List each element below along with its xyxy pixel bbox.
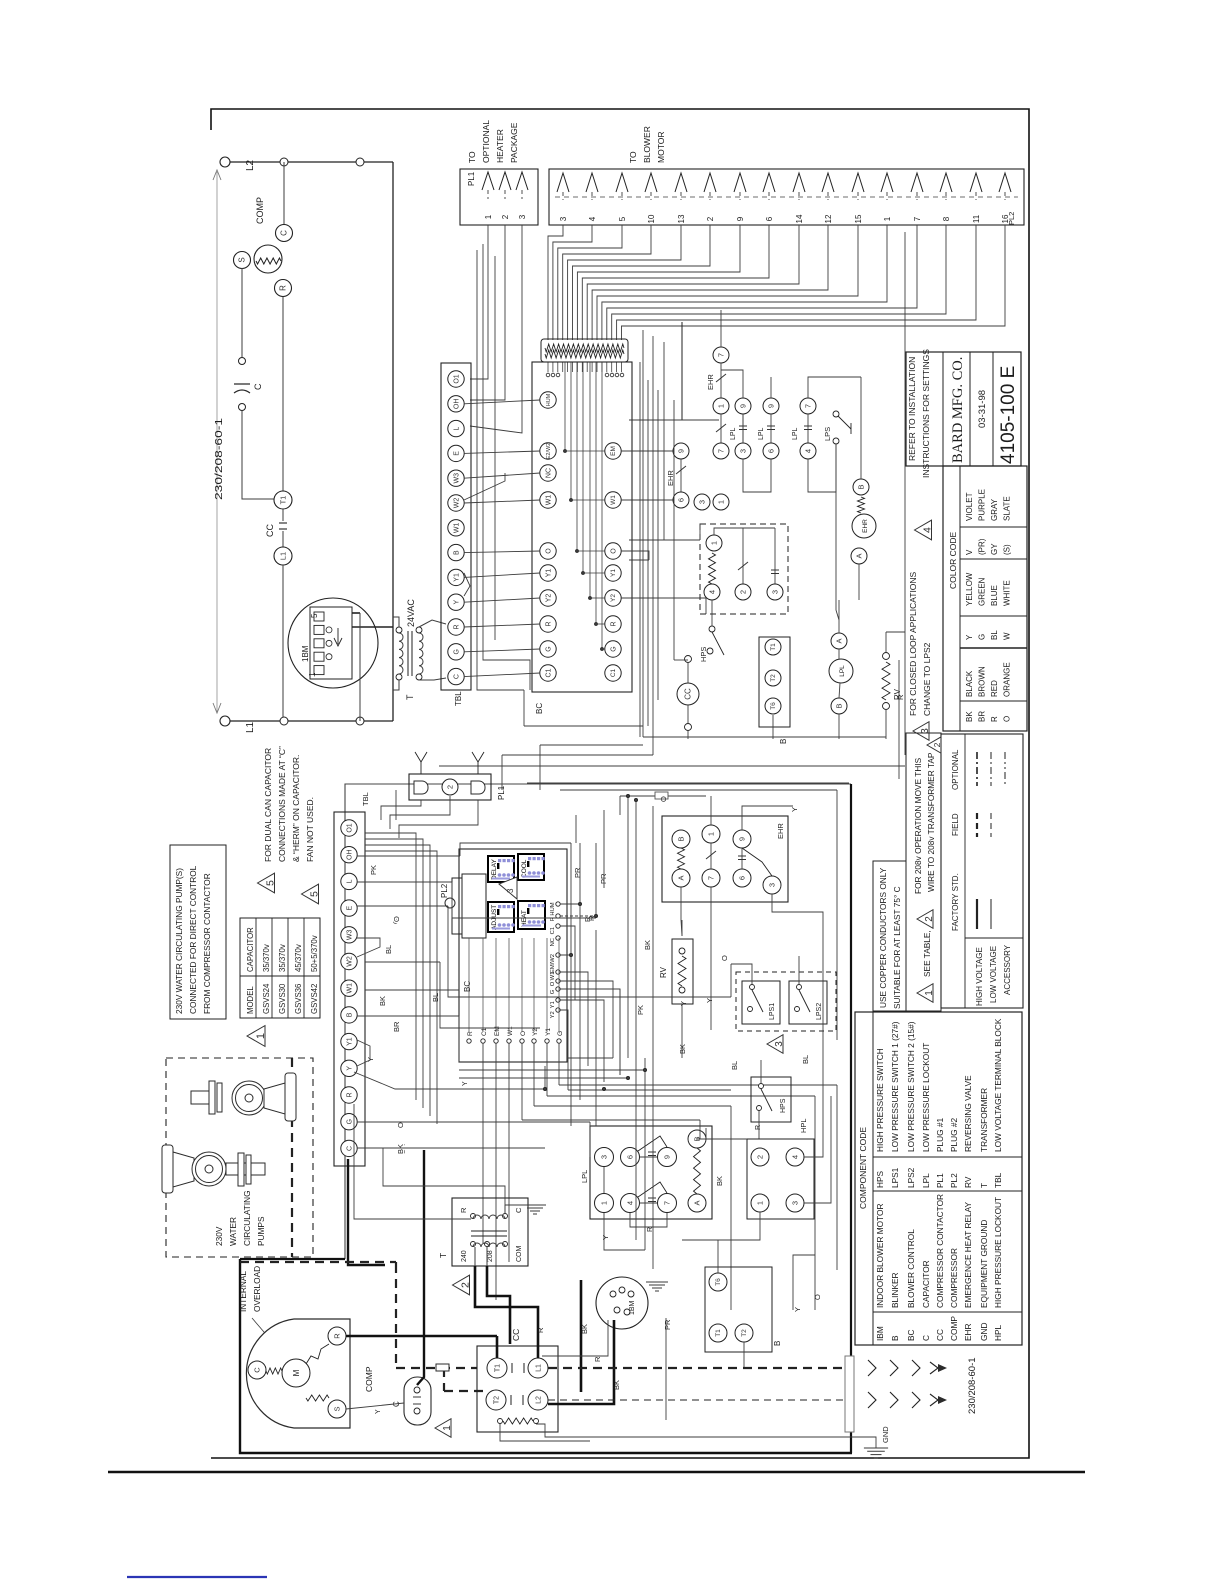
svg-text:14: 14 xyxy=(795,214,804,223)
TBL terminal W3 xyxy=(448,470,464,486)
wire PL1-1 to TBL O1 xyxy=(470,225,488,379)
leader line xyxy=(252,1318,288,1360)
winding M-S xyxy=(306,1395,329,1401)
LPL 6 xyxy=(621,1148,640,1167)
wire down 2 xyxy=(652,336,654,700)
svg-text:PR: PR xyxy=(573,867,582,878)
svg-text:2: 2 xyxy=(932,742,942,747)
svg-text:Y2: Y2 xyxy=(545,594,552,603)
wire vert c xyxy=(657,390,659,700)
wire vert g xyxy=(652,806,654,1269)
HPS contact xyxy=(738,562,748,570)
svg-text:LPS: LPS xyxy=(823,427,832,441)
contact 1 xyxy=(713,398,729,414)
svg-text:LPL: LPL xyxy=(758,427,765,440)
svg-text:15: 15 xyxy=(854,214,863,223)
svg-text:HPS: HPS xyxy=(875,1170,885,1188)
wire BC2 bottom down xyxy=(533,1043,535,1106)
svg-text:O: O xyxy=(550,981,556,986)
wire L1 bottom bus xyxy=(230,720,393,722)
TB T6 lower xyxy=(709,1273,727,1291)
blower pin 11 arrow xyxy=(970,173,982,192)
svg-text:COLOR CODE: COLOR CODE xyxy=(948,532,958,589)
HPS circle 1 xyxy=(706,535,722,551)
svg-text:TO: TO xyxy=(628,151,638,163)
wire to lower unit 1 xyxy=(502,754,653,756)
svg-text:PLUG #1: PLUG #1 xyxy=(935,1117,945,1152)
warning triangle 2a xyxy=(453,1275,470,1295)
sample accessory xyxy=(1004,752,1006,786)
svg-text:HPL: HPL xyxy=(993,1324,1003,1341)
svg-text:R: R xyxy=(610,621,617,626)
BC2 terminal O xyxy=(556,979,560,983)
wire C1 xyxy=(560,926,575,1000)
HPS circle 4 xyxy=(704,584,720,600)
svg-text:5: 5 xyxy=(309,891,321,897)
winding M-R xyxy=(306,1344,329,1364)
TBL2 terminal OH xyxy=(341,847,357,863)
plug PL1 connector box xyxy=(460,169,538,225)
svg-text:L1: L1 xyxy=(245,721,256,733)
svg-text:BL: BL xyxy=(431,993,440,1002)
svg-text:2: 2 xyxy=(460,1282,472,1288)
svg-text:R: R xyxy=(896,694,905,700)
wire inside BC2 xyxy=(495,938,497,1032)
CC L2 xyxy=(528,1390,548,1410)
svg-text:EHR: EHR xyxy=(776,823,785,839)
BC terminal G xyxy=(540,641,556,657)
svg-text:PACKAGE: PACKAGE xyxy=(509,122,519,163)
svg-text:L1: L1 xyxy=(278,552,287,560)
heavy dashed field line in pump box xyxy=(291,1058,293,1257)
svg-text:WIRE TO 208v TRANSFORMER TAP: WIRE TO 208v TRANSFORMER TAP xyxy=(926,752,936,892)
blower pin 1 arrow xyxy=(881,173,893,192)
contact 9 xyxy=(735,398,751,414)
svg-text:2: 2 xyxy=(738,590,747,594)
legend box xyxy=(941,734,1023,1008)
LPL box lower xyxy=(590,1126,712,1219)
svg-text:GSVS30: GSVS30 xyxy=(278,983,287,1014)
wire blower lead 2 xyxy=(573,225,711,340)
element terminal dot r xyxy=(610,373,614,377)
svg-text:45/370v: 45/370v xyxy=(294,944,303,972)
indoor blower motor 1BM xyxy=(288,598,378,688)
svg-text:Y: Y xyxy=(965,634,974,640)
bottom unit wire corner xyxy=(365,845,430,1116)
svg-text:YELLOW: YELLOW xyxy=(965,572,974,606)
LPL 3 xyxy=(595,1148,614,1167)
wire down 4 xyxy=(681,322,683,420)
TBL2 terminal R xyxy=(341,1087,357,1103)
wire PL1b xyxy=(390,796,450,829)
svg-text:4105-100 E: 4105-100 E xyxy=(998,366,1019,464)
svg-text:V: V xyxy=(965,549,974,555)
wire horiz a xyxy=(629,419,719,421)
svg-text:7: 7 xyxy=(716,353,725,357)
wire W1 xyxy=(560,972,588,1066)
svg-text:USE COPPER CONDUCTORS ONLY: USE COPPER CONDUCTORS ONLY xyxy=(878,867,888,1008)
svg-text:230V: 230V xyxy=(214,1226,224,1246)
BC right terminal Y2 xyxy=(605,590,621,606)
blower connector box xyxy=(549,169,1024,225)
contactor CC box xyxy=(477,1346,558,1432)
TBL2 terminal O1 xyxy=(341,820,357,836)
svg-text:NC: NC xyxy=(545,468,552,478)
warning triangle 3 xyxy=(913,722,929,741)
warning triangle 5a xyxy=(258,873,275,893)
wire 1BM R to L1 xyxy=(542,1320,608,1356)
wire mid vertical bus xyxy=(359,613,361,721)
svg-text:LPS1: LPS1 xyxy=(890,1167,900,1188)
capacitor terminal dot 2 xyxy=(239,404,246,411)
svg-text:6: 6 xyxy=(765,216,774,221)
svg-text:PL2: PL2 xyxy=(949,1173,959,1188)
CC wire dot xyxy=(685,656,692,663)
unit outline heavy L xyxy=(240,1259,852,1453)
BC2 bottom terminal C1 xyxy=(481,1039,485,1043)
junction dot xyxy=(594,914,597,917)
capacitor plate 1 xyxy=(234,383,250,385)
svg-text:T1: T1 xyxy=(278,496,287,505)
BC2 bottom terminal G xyxy=(557,1039,561,1043)
svg-text:MODEL: MODEL xyxy=(246,986,255,1014)
heater element zigzag row 1 xyxy=(545,344,624,352)
HPS circle 3 xyxy=(767,584,783,600)
wire left vert 3 xyxy=(494,256,496,640)
svg-text:IBM: IBM xyxy=(875,1326,885,1341)
svg-text:B: B xyxy=(890,1335,900,1341)
svg-text:OVERLOAD: OVERLOAD xyxy=(252,1266,262,1312)
svg-text:L1: L1 xyxy=(535,1364,542,1372)
TB T2 lower xyxy=(735,1324,753,1342)
HPL 2 xyxy=(751,1148,769,1166)
blower pin 2 arrow xyxy=(704,173,716,192)
svg-text:O: O xyxy=(1003,716,1012,722)
svg-text:B: B xyxy=(779,739,788,744)
element terminal dot r xyxy=(620,373,624,377)
svg-text:6: 6 xyxy=(625,1155,634,1159)
svg-text:LPL: LPL xyxy=(839,665,846,677)
junction on L2 bus 2 xyxy=(356,158,364,166)
sample hv field xyxy=(976,813,978,837)
wire vert k xyxy=(822,975,824,1139)
svg-text:CAPACITOR: CAPACITOR xyxy=(921,1260,931,1308)
wire L1 to bottom bus xyxy=(282,565,284,717)
heater element zigzag row 2 xyxy=(545,350,624,358)
svg-text:FAN NOT USED.: FAN NOT USED. xyxy=(305,797,315,862)
svg-text:NC: NC xyxy=(550,938,556,946)
BC terminal E2/W2 xyxy=(540,443,556,459)
svg-text:5: 5 xyxy=(265,880,277,886)
svg-text:S: S xyxy=(332,1406,341,1411)
wire vert a xyxy=(639,362,641,737)
svg-text:9: 9 xyxy=(766,404,775,408)
svg-text:R: R xyxy=(459,1207,468,1213)
wire bus to C xyxy=(283,162,285,224)
CC contactor coil xyxy=(677,683,699,705)
svg-text:BL: BL xyxy=(384,945,393,954)
svg-text:G: G xyxy=(453,649,460,654)
wire left vert 2 xyxy=(483,244,530,690)
TBL2 terminal Y xyxy=(341,1060,357,1076)
svg-text:GRAY: GRAY xyxy=(990,498,999,521)
svg-text:FOR DUAL CAN CAPACITOR: FOR DUAL CAN CAPACITOR xyxy=(263,748,273,862)
svg-text:R: R xyxy=(536,1327,545,1333)
BC2 bottom terminal R xyxy=(467,1039,471,1043)
svg-text:Y: Y xyxy=(793,1307,802,1312)
svg-text:DELAY: DELAY xyxy=(491,859,498,880)
TBL2 terminal Y1 xyxy=(341,1033,357,1049)
svg-text:COMPONENT CODE: COMPONENT CODE xyxy=(858,1127,868,1209)
HPS resistor xyxy=(709,553,716,584)
svg-text:3: 3 xyxy=(506,888,515,893)
wire bottom unit top bus 2 xyxy=(560,789,837,791)
wire TBL W3 to BC xyxy=(464,473,540,478)
wire blower lead 15 xyxy=(597,225,858,340)
svg-text:4: 4 xyxy=(625,1201,634,1205)
wire TBL B to BC xyxy=(464,551,540,553)
svg-text:3: 3 xyxy=(599,1155,608,1159)
wire vert h xyxy=(595,930,597,1126)
LPS2 box xyxy=(789,981,827,1024)
svg-text:LPL: LPL xyxy=(580,1170,589,1183)
wire S to cap xyxy=(346,1403,404,1409)
junction dot xyxy=(569,953,572,956)
unit outline right heavy xyxy=(850,784,852,1453)
junction on L1 bus 2 xyxy=(356,717,364,725)
warning triangle 5b xyxy=(302,884,319,904)
1BM motor lower xyxy=(596,1277,648,1329)
TBL terminal E xyxy=(448,445,464,461)
svg-text:EQUIPMENT GROUND: EQUIPMENT GROUND xyxy=(979,1220,989,1308)
LPS switch contact b xyxy=(833,438,839,444)
capacitor terminal dot xyxy=(239,358,246,365)
contact 3 left xyxy=(694,494,710,510)
svg-text:2: 2 xyxy=(924,916,935,922)
svg-text:PL1: PL1 xyxy=(935,1173,945,1188)
svg-text:LPL: LPL xyxy=(730,427,737,440)
svg-text:COM: COM xyxy=(516,1246,523,1263)
svg-text:W2: W2 xyxy=(346,956,353,967)
wire OH row xyxy=(357,855,460,857)
svg-text:VIOLET: VIOLET xyxy=(965,492,974,521)
wire Y diag xyxy=(354,1072,545,1089)
wire right vertical bus xyxy=(392,162,394,721)
1BM terminal strip xyxy=(310,607,352,679)
svg-text:2: 2 xyxy=(706,216,715,221)
svg-text:Y2: Y2 xyxy=(532,1028,539,1036)
svg-text:2: 2 xyxy=(501,214,510,219)
svg-text:T6: T6 xyxy=(715,1278,722,1286)
heavy dashed run 4 xyxy=(548,1367,849,1369)
wire BK to T C xyxy=(383,1148,505,1213)
svg-text:W1: W1 xyxy=(507,1026,514,1036)
run capacitor C oval xyxy=(414,1387,420,1393)
svg-text:Y1: Y1 xyxy=(610,569,617,577)
wire to lower unit 2 xyxy=(540,744,643,746)
terminal A 2 xyxy=(831,633,847,649)
wire horiz b xyxy=(629,539,700,541)
thin dashed run xyxy=(548,1399,849,1401)
svg-text:L2: L2 xyxy=(245,159,256,171)
svg-text:ACCESSORY: ACCESSORY xyxy=(1003,944,1012,995)
wire PL1-2 xyxy=(470,225,505,400)
svg-text:6: 6 xyxy=(676,498,685,502)
wire bottom bus top-unit xyxy=(643,736,886,738)
wire down 1 xyxy=(642,330,644,737)
winding C-M xyxy=(266,1368,282,1374)
wire G xyxy=(560,989,620,1075)
blower pin 6 arrow xyxy=(763,173,775,192)
EHR contact slash xyxy=(716,374,726,382)
wire bottom unit top bus xyxy=(527,782,849,784)
svg-text:HEATER: HEATER xyxy=(495,129,505,163)
terminal A xyxy=(851,548,867,564)
svg-text:1: 1 xyxy=(709,541,718,545)
wire vert d xyxy=(673,400,675,660)
blower pin 14 arrow xyxy=(793,173,805,192)
svg-text:1BM: 1BM xyxy=(629,1300,636,1315)
thick wire BK xyxy=(580,1280,583,1392)
svg-text:230V WATER CIRCULATING PUMP(S): 230V WATER CIRCULATING PUMP(S) xyxy=(174,868,184,1014)
svg-text:11: 11 xyxy=(972,214,981,223)
RV resistor xyxy=(882,662,890,700)
use copper note box xyxy=(873,861,906,1011)
svg-text:6: 6 xyxy=(737,876,746,880)
svg-text:4: 4 xyxy=(790,1155,799,1159)
BC2 terminal W1 xyxy=(556,970,560,974)
svg-text:9: 9 xyxy=(676,449,685,453)
wire inside BC2 xyxy=(558,938,560,1032)
HPL 3 xyxy=(786,1194,804,1212)
blower pin 7 arrow xyxy=(911,173,923,192)
svg-text:3: 3 xyxy=(559,216,568,221)
BC2 terminal C1 xyxy=(556,924,560,928)
element terminal dot r xyxy=(615,373,619,377)
1BM ground xyxy=(646,1282,668,1291)
svg-text:BK: BK xyxy=(378,996,387,1006)
svg-text:C1: C1 xyxy=(610,668,617,677)
jumper Y1-Y xyxy=(357,1040,370,1066)
HPL box xyxy=(747,1139,814,1219)
svg-text:C: C xyxy=(280,230,289,236)
svg-text:HIGH PRESSURE LOCKOUT: HIGH PRESSURE LOCKOUT xyxy=(993,1197,1003,1308)
TB box lower xyxy=(705,1267,772,1352)
BC terminal O xyxy=(540,543,556,559)
svg-text:A: A xyxy=(834,638,843,643)
wire to lower unit 3 xyxy=(524,725,643,727)
svg-text:GREEN: GREEN xyxy=(978,577,987,606)
thick wire R to T1 xyxy=(346,1335,497,1338)
svg-text:Y1: Y1 xyxy=(346,1037,353,1046)
svg-text:C: C xyxy=(253,383,263,390)
svg-text:CONNECTIONS MADE AT “C”: CONNECTIONS MADE AT “C” xyxy=(277,746,287,862)
svg-text:W2: W2 xyxy=(453,498,460,509)
svg-text:MOTOR: MOTOR xyxy=(656,132,666,163)
wire horiz e xyxy=(365,989,459,991)
wire element lead in BC xyxy=(570,362,572,500)
compressor terminal S xyxy=(234,252,251,269)
svg-text:COMP: COMP xyxy=(255,197,265,224)
RV dot top xyxy=(883,653,890,660)
svg-text:PL2: PL2 xyxy=(1007,212,1016,225)
svg-text:T2: T2 xyxy=(493,1396,500,1404)
wire blower lead 6 xyxy=(582,225,769,340)
comp C xyxy=(248,1361,266,1379)
svg-text:BL: BL xyxy=(730,1061,739,1070)
svg-text:(PR): (PR) xyxy=(978,538,987,555)
svg-text:B: B xyxy=(834,703,843,708)
LPS1 box xyxy=(742,981,780,1024)
PL1 pin 1 arrow xyxy=(482,172,494,190)
wire down 3 xyxy=(663,342,665,540)
svg-text:RV: RV xyxy=(659,966,668,978)
EHR relay coil xyxy=(852,514,876,538)
LPL contact 6-9 slash xyxy=(638,1136,667,1151)
warning triangle 1b xyxy=(435,1419,451,1438)
wire C row BK xyxy=(357,1147,545,1149)
svg-text:EMERGENCE HEAT RELAY: EMERGENCE HEAT RELAY xyxy=(963,1201,973,1308)
wire BC2 bottom down xyxy=(508,1043,510,1262)
svg-text:E2/W2: E2/W2 xyxy=(546,443,552,460)
wire inside BC2 xyxy=(546,938,548,1032)
svg-text:T6: T6 xyxy=(770,702,777,710)
TBL terminal R xyxy=(448,619,464,635)
CC contact 1 xyxy=(511,1363,513,1373)
BC right terminal W1 xyxy=(605,492,621,508)
svg-text:O: O xyxy=(813,1294,822,1300)
footer blue link underline xyxy=(127,1576,267,1578)
contact 7 top xyxy=(713,347,729,363)
svg-text:BL: BL xyxy=(990,630,999,640)
svg-text:9: 9 xyxy=(662,1155,671,1159)
transformer core xyxy=(407,631,409,676)
svg-text:SLATE: SLATE xyxy=(1003,496,1012,521)
plug PL1 lower box xyxy=(409,774,491,800)
svg-text:T2: T2 xyxy=(770,674,777,682)
svg-text:FIELD: FIELD xyxy=(951,813,960,836)
svg-text:3: 3 xyxy=(790,1201,799,1205)
svg-text:SEE TABLE,: SEE TABLE, xyxy=(922,930,932,977)
svg-text:& “HERM” ON CAPACITOR.: & “HERM” ON CAPACITOR. xyxy=(291,755,301,862)
svg-text:Y: Y xyxy=(462,1081,469,1086)
svg-text:BK: BK xyxy=(612,1380,621,1390)
svg-text:BLUE: BLUE xyxy=(990,585,999,606)
svg-text:FROM COMPRESSOR CONTACTOR: FROM COMPRESSOR CONTACTOR xyxy=(202,873,212,1014)
svg-text:G: G xyxy=(545,646,552,651)
svg-text:M: M xyxy=(292,1369,301,1376)
wire blower lead 8 xyxy=(612,225,946,340)
svg-text:R: R xyxy=(453,624,460,629)
svg-text:TRANSFORMER: TRANSFORMER xyxy=(979,1088,989,1152)
svg-text:Y: Y xyxy=(346,1066,353,1071)
TBL terminal Y1 xyxy=(448,569,464,585)
wire TBL R to BC xyxy=(464,624,540,627)
wire HUM up xyxy=(560,843,580,904)
wire LPS to A xyxy=(836,445,839,620)
wire blower lead 1 xyxy=(602,225,887,340)
junction dot xyxy=(634,798,637,801)
svg-text:7: 7 xyxy=(803,404,812,408)
bottom unit wire corner xyxy=(365,851,437,1124)
contact 1 low xyxy=(713,494,729,510)
svg-text:1: 1 xyxy=(599,1201,608,1205)
svg-text:4: 4 xyxy=(588,216,597,221)
svg-text:W1: W1 xyxy=(610,495,617,505)
svg-text:O: O xyxy=(659,796,668,802)
wire B row xyxy=(357,1015,459,1017)
warning triangle 2c xyxy=(927,737,941,753)
